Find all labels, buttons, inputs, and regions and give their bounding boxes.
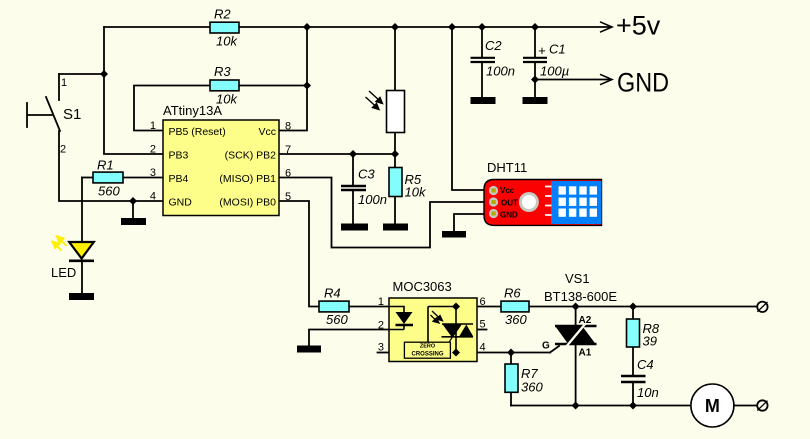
capacitor C2 [471, 38, 515, 78]
svg-text:100n: 100n [358, 192, 387, 207]
wire DHT Vcc vertical [452, 27, 487, 190]
svg-text:6: 6 [480, 296, 486, 308]
resistor R7 [505, 364, 543, 395]
node C4 rail [629, 402, 637, 410]
svg-text:(MOSI) PB0: (MOSI) PB0 [219, 197, 276, 209]
wire bottom rail [511, 405, 691, 407]
DHT11 pin pads [489, 186, 498, 218]
svg-text:GND: GND [500, 210, 518, 219]
svg-text:360: 360 [521, 380, 543, 395]
MOC pin3 stub [378, 352, 390, 354]
LDR photoresistor [366, 91, 405, 133]
svg-text:4: 4 [480, 342, 486, 354]
svg-text:39: 39 [643, 334, 657, 349]
wire LDR bottom [394, 133, 396, 155]
resistor R6 [501, 286, 529, 328]
MOC pin5 stub [477, 329, 487, 331]
ground (C2) [471, 97, 496, 104]
DHT11 pin labels [500, 186, 518, 219]
svg-text:4: 4 [150, 191, 156, 203]
svg-text:560: 560 [98, 184, 120, 199]
capacitor C4 [621, 357, 659, 400]
wire S1 pin1 to node [59, 73, 104, 75]
wire gate diagonal [550, 346, 559, 353]
LED D1 [51, 242, 94, 280]
node R8 top [629, 303, 637, 311]
wire LDR top [394, 27, 396, 91]
node A2 [572, 303, 580, 311]
wire R5 top stub [394, 154, 396, 168]
node MOC triac top [452, 303, 460, 311]
capacitor C3 [341, 167, 387, 208]
wire R3 right to Vcc node [239, 85, 307, 87]
svg-text:8: 8 [285, 121, 291, 133]
ground (pin4) [121, 218, 146, 225]
wire DHT GND to ground [454, 214, 487, 231]
svg-text:R3: R3 [214, 64, 231, 79]
svg-text:(SCK) PB2: (SCK) PB2 [225, 150, 277, 162]
svg-text:ATtiny13A: ATtiny13A [163, 103, 222, 118]
wire S1 bottom lead to GND row [59, 131, 163, 201]
wire LED anode vertical [81, 178, 83, 243]
wire R1 right to PB4 [123, 177, 163, 179]
node S1/PB3 [100, 70, 108, 78]
svg-text:MOC3063: MOC3063 [393, 279, 452, 294]
DHT11 module [484, 160, 602, 225]
svg-text:2: 2 [150, 144, 156, 156]
svg-text:LED: LED [51, 265, 76, 280]
svg-text:GND: GND [617, 68, 669, 98]
wire DHT OUT to PB1 pin6 [279, 178, 487, 248]
wire R1 left to LED [82, 177, 93, 179]
arrow GND [600, 74, 612, 84]
arrow +5v [600, 22, 612, 32]
ground (MOC pin2) [297, 346, 321, 353]
wire MOC pin4 to gate [477, 352, 550, 354]
op-amp U1: ATtiny13A IC body [150, 103, 291, 216]
svg-text:BT138-600E: BT138-600E [544, 289, 617, 304]
svg-text:2: 2 [60, 144, 66, 156]
wire R8 top stub [632, 307, 634, 320]
resistor R5 [389, 168, 427, 200]
svg-text:PB5 (Reset): PB5 (Reset) [169, 126, 226, 138]
node rail C1 [531, 23, 539, 31]
node C3 [349, 150, 357, 158]
wire C3 top stub [352, 154, 354, 185]
wire C2 stub bottom [481, 63, 483, 98]
svg-text:PB3: PB3 [169, 150, 189, 162]
svg-text:10n: 10n [637, 385, 659, 400]
wire S1 top lead [58, 74, 60, 100]
svg-text:CROSSING: CROSSING [411, 352, 443, 358]
svg-text:100n: 100n [486, 64, 515, 79]
node rail C2 [478, 23, 486, 31]
svg-text:10k: 10k [405, 185, 427, 200]
wire MOC pin6 to R6 [477, 306, 501, 308]
wire GND stub pin4 [132, 201, 134, 218]
node rail DHT [448, 23, 456, 31]
svg-text:R1: R1 [97, 158, 114, 173]
svg-text:6: 6 [285, 168, 291, 180]
svg-text:C4: C4 [637, 357, 654, 372]
svg-text:OUT: OUT [501, 198, 518, 207]
resistor R4 [319, 286, 349, 328]
svg-text:R4: R4 [324, 286, 341, 301]
node GND pin4 [129, 197, 137, 205]
resistor R8 [627, 319, 660, 349]
DHT11 tick lines [545, 187, 552, 216]
svg-text:R2: R2 [214, 7, 231, 22]
wire Vcc pin8 [279, 27, 307, 131]
svg-text:C3: C3 [358, 167, 375, 182]
DHT11 mounting hole [519, 192, 539, 212]
svg-text:1: 1 [378, 296, 384, 308]
wire triac A2 vertical [575, 307, 577, 327]
MOC light arrows [430, 311, 442, 323]
ground (C1) [523, 97, 548, 104]
svg-text:M: M [705, 396, 720, 416]
MOC zero crossing box [404, 342, 450, 358]
wire pin5 PB0 to R4 [279, 201, 319, 307]
wire pin7 PB2 row [279, 153, 395, 155]
node A1 rail [572, 402, 580, 410]
ground (DHT11) [442, 231, 466, 238]
wire C1 stub top [534, 27, 536, 57]
svg-text:C2: C2 [485, 38, 502, 53]
switch S1 blade [46, 97, 60, 131]
wire C4 bottom stub [632, 383, 634, 406]
resistor R1 [93, 158, 123, 199]
svg-text:(MISO) PB1: (MISO) PB1 [219, 173, 276, 185]
svg-text:A1: A1 [579, 348, 592, 359]
svg-text:1: 1 [150, 120, 156, 132]
svg-text:R6: R6 [504, 286, 521, 301]
svg-text:S1: S1 [63, 106, 81, 123]
wire R6 to terminal rail [529, 306, 757, 308]
svg-text:G: G [542, 341, 550, 352]
svg-text:5: 5 [285, 191, 291, 203]
wire triac A1 vertical [575, 345, 577, 406]
ground (R5) [383, 224, 408, 231]
svg-text:3: 3 [378, 342, 384, 354]
wire R3 left to pin1 [134, 86, 210, 131]
wire LED cathode to ground [81, 262, 83, 293]
svg-text:5: 5 [480, 319, 486, 331]
terminal bottom [757, 400, 767, 410]
wire left vertical from R2 to PB3 [104, 27, 163, 154]
svg-text:DHT11: DHT11 [487, 160, 527, 175]
svg-text:ZERO: ZERO [420, 343, 436, 349]
svg-text:C1: C1 [549, 42, 566, 57]
wire C3 bottom stub [352, 191, 354, 224]
node R5/LDR [391, 150, 399, 158]
wire MOC pin2 to ground [309, 330, 389, 346]
triac VS1 BT138-600E [542, 271, 617, 359]
svg-text:1: 1 [61, 77, 67, 89]
wire R7 top stub [510, 353, 512, 365]
wire R7 bottom stub [510, 392, 512, 405]
svg-text:GND: GND [169, 197, 193, 209]
node MOC triac bottom [452, 349, 460, 357]
wire GND label line [535, 79, 611, 81]
node rail LDR [391, 23, 399, 31]
svg-text:Vcc: Vcc [500, 186, 515, 195]
MOC phototriac [428, 307, 456, 343]
node rail R3 [303, 23, 311, 31]
terminal top [757, 302, 767, 312]
switch S1 actuator [27, 103, 52, 127]
ground (C3) [341, 224, 368, 231]
wire +5V top rail [104, 26, 611, 28]
wire C2 stub top [481, 27, 483, 57]
svg-text:360: 360 [505, 312, 527, 327]
resistor R2 [210, 7, 239, 49]
svg-text:Vcc: Vcc [258, 126, 276, 138]
resistor R3 [210, 64, 239, 107]
DHT11 sensor grid [551, 181, 602, 224]
svg-text:100µ: 100µ [540, 64, 569, 79]
svg-text:3: 3 [150, 167, 156, 179]
ground (LED) [69, 293, 94, 300]
node R3/Vcc [303, 82, 311, 90]
wire R4 right to MOC pin1 [349, 306, 389, 308]
motor M [691, 384, 734, 427]
optocoupler U2 MOC3063 [378, 279, 486, 362]
capacitor C1 [523, 42, 569, 79]
DHT11 board [484, 180, 602, 226]
svg-text:+: + [538, 43, 546, 58]
svg-text:10k: 10k [216, 34, 238, 49]
svg-text:+5v: +5v [616, 11, 661, 41]
wire R8 bottom to C4 [632, 347, 634, 375]
svg-text:VS1: VS1 [565, 271, 590, 286]
node C1/GND [531, 76, 539, 84]
wire motor to terminal [734, 405, 757, 407]
MOC LED [389, 307, 404, 313]
node R7/gate [507, 349, 515, 357]
wire R5 bottom stub [394, 197, 396, 224]
svg-text:7: 7 [285, 144, 291, 156]
svg-text:560: 560 [326, 312, 348, 327]
LED arrows [53, 236, 67, 250]
svg-text:2: 2 [378, 320, 384, 332]
svg-text:A2: A2 [579, 315, 592, 326]
svg-text:PB4: PB4 [169, 173, 189, 185]
wire C1 stub bottom [534, 63, 536, 98]
